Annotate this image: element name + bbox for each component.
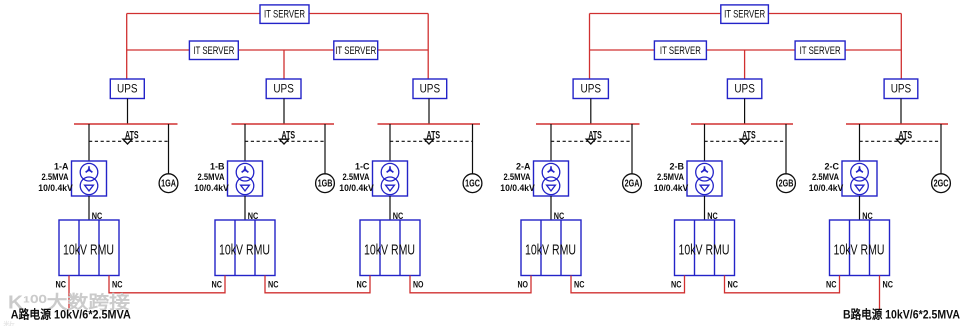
- svg-text:NC: NC: [212, 280, 223, 291]
- label: transformer 2-C rating: [809, 162, 844, 194]
- wire: transformer 1-B feeder drop: [244, 124, 246, 161]
- svg-text:NC: NC: [883, 280, 894, 291]
- RMU 6 (10kV ring main unit 2-C): [830, 220, 890, 276]
- wire: UPS 1-A drop to bus: [127, 99, 129, 125]
- svg-text:10kV RMU: 10kV RMU: [679, 242, 730, 259]
- wire: ring cable RMU 3 to RMU 4: [410, 276, 531, 293]
- bus 2-A (0.4kV busbar): [536, 123, 640, 125]
- svg-text:NC: NC: [728, 280, 739, 291]
- IT server (top, group B): [721, 5, 769, 24]
- wire: ring cable RMU 4 to RMU 5: [571, 276, 685, 293]
- RMU 5 (10kV ring main unit 2-B): [675, 220, 735, 276]
- wire: transformer 1-C to RMU: [389, 196, 391, 220]
- svg-text:10kV RMU: 10kV RMU: [219, 242, 270, 259]
- svg-text:10/0.4kV: 10/0.4kV: [38, 183, 73, 194]
- IT server (row 2 right, group A): [334, 41, 378, 60]
- label: transformer 1-B rating: [194, 162, 229, 194]
- wire: transformer 1-A to RMU: [88, 196, 90, 220]
- wire: UPS 1-B drop to bus: [283, 99, 285, 125]
- svg-text:1-A: 1-A: [54, 162, 69, 173]
- watermark: [3, 292, 130, 326]
- svg-text:UPS: UPS: [420, 84, 441, 96]
- bus 1-A (0.4kV busbar): [74, 123, 178, 125]
- generator 1GC: [463, 174, 482, 193]
- wire: UPS 1-C drop to bus: [428, 99, 430, 125]
- wire: transformer 1-B to RMU: [244, 196, 246, 220]
- RMU 1 (10kV ring main unit 1-A): [59, 220, 119, 276]
- IT server (top, group A): [260, 5, 309, 24]
- generator 2GB: [777, 174, 796, 193]
- svg-text:B路电源 10kV/6*2.5MVA: B路电源 10kV/6*2.5MVA: [843, 307, 960, 322]
- svg-text:IT SERVER: IT SERVER: [335, 45, 376, 57]
- IT server (row 2 left, group B): [654, 41, 706, 60]
- wire: transformer 2-A to RMU: [550, 196, 552, 220]
- transformer 1-A 2.5MVA 10/0.4kV: [72, 161, 107, 196]
- bus 1-B (0.4kV busbar): [232, 123, 335, 125]
- svg-text:NC: NC: [357, 280, 368, 291]
- transformer 2-B 2.5MVA 10/0.4kV: [687, 161, 722, 196]
- svg-text:2-C: 2-C: [825, 162, 840, 173]
- ATS 2-B (dashed transfer link): [705, 129, 787, 144]
- svg-text:NO: NO: [413, 280, 424, 291]
- svg-text:2.5MVA: 2.5MVA: [42, 172, 69, 183]
- svg-text:2GB: 2GB: [779, 178, 794, 190]
- wire: group B middle vertical to UPS: [744, 50, 746, 79]
- generator 1GA: [159, 174, 178, 193]
- label: transformer 2-B rating: [654, 162, 689, 194]
- svg-text:10kV RMU: 10kV RMU: [525, 242, 576, 259]
- wire: ring cable RMU 2 to RMU 3: [265, 276, 370, 293]
- svg-text:10kV RMU: 10kV RMU: [364, 242, 415, 259]
- transformer 1-C 2.5MVA 10/0.4kV: [373, 161, 408, 196]
- svg-text:2.5MVA: 2.5MVA: [657, 172, 684, 183]
- wire: group B right vertical to UPS: [900, 14, 902, 80]
- svg-text:NC: NC: [112, 280, 123, 291]
- svg-text:UPS: UPS: [734, 84, 755, 96]
- svg-text:2-B: 2-B: [670, 162, 685, 173]
- ATS 1-B (dashed transfer link): [245, 129, 325, 144]
- wire: incoming feed A to RMU 1: [68, 276, 70, 311]
- wire: transformer 1-A feeder drop: [88, 124, 90, 161]
- wire: transformer 2-B feeder drop: [704, 124, 706, 161]
- svg-text:IT SERVER: IT SERVER: [264, 9, 305, 21]
- wire: UPS 2-B drop to bus: [744, 99, 746, 125]
- svg-text:NC: NC: [826, 280, 837, 291]
- wire: generator 1GC drop: [472, 124, 474, 174]
- wire: transformer 2-B to RMU: [704, 196, 706, 220]
- svg-text:10/0.4kV: 10/0.4kV: [194, 183, 229, 194]
- svg-text:2.5MVA: 2.5MVA: [343, 172, 370, 183]
- ATS 2-A (dashed transfer link): [551, 129, 632, 144]
- wire: ring cable RMU 1 to RMU 2: [109, 276, 225, 293]
- svg-text:IT SERVER: IT SERVER: [193, 45, 234, 57]
- svg-text:1GC: 1GC: [465, 178, 480, 190]
- svg-text:NC: NC: [56, 280, 67, 291]
- label: transformer 1-A rating: [38, 162, 73, 194]
- svg-text:UPS: UPS: [117, 84, 138, 96]
- svg-text:1-B: 1-B: [210, 162, 225, 173]
- RMU 3 (10kV ring main unit 1-C): [360, 220, 420, 276]
- UPS B2: [727, 79, 761, 99]
- wire: transformer 2-A feeder drop: [550, 124, 552, 161]
- wire: generator 1GB drop: [324, 124, 326, 174]
- generator 2GC: [932, 174, 951, 193]
- wire: group B top server ring, upper horizontal: [590, 13, 902, 15]
- svg-text:10kV RMU: 10kV RMU: [834, 242, 885, 259]
- wire: transformer 1-C feeder drop: [389, 124, 391, 161]
- svg-text:IT SERVER: IT SERVER: [800, 45, 841, 57]
- svg-text:1-C: 1-C: [355, 162, 370, 173]
- wire: group B left vertical to UPS: [589, 14, 591, 80]
- svg-text:10kV RMU: 10kV RMU: [63, 242, 114, 259]
- svg-text:IT SERVER: IT SERVER: [724, 9, 765, 21]
- RMU 2 (10kV ring main unit 1-B): [215, 220, 275, 276]
- svg-text:A路电源 10kV/6*2.5MVA: A路电源 10kV/6*2.5MVA: [11, 307, 131, 322]
- wire: group A server row horizontal: [127, 49, 429, 51]
- svg-text:UPS: UPS: [273, 84, 294, 96]
- transformer 1-B 2.5MVA 10/0.4kV: [228, 161, 263, 196]
- wire: incoming feed B to RMU 6: [879, 276, 881, 310]
- generator 1GB: [316, 174, 335, 193]
- svg-text:2GC: 2GC: [934, 178, 949, 190]
- svg-text:NC: NC: [574, 280, 585, 291]
- svg-text:UPS: UPS: [581, 84, 602, 96]
- ATS 1-A (dashed transfer link): [89, 129, 169, 144]
- RMU 4 (10kV ring main unit 2-A): [521, 220, 581, 276]
- ATS 1-C (dashed transfer link): [390, 129, 473, 144]
- UPS A1: [110, 79, 144, 99]
- svg-text:NO: NO: [518, 280, 529, 291]
- svg-text:2.5MVA: 2.5MVA: [812, 172, 839, 183]
- transformer 2-C 2.5MVA 10/0.4kV: [842, 161, 877, 196]
- UPS B1: [573, 79, 608, 99]
- svg-text:1GA: 1GA: [161, 178, 176, 190]
- svg-text:1GB: 1GB: [318, 178, 333, 190]
- IT server (row 2 right, group B): [795, 41, 845, 60]
- label: transformer 2-A rating: [500, 162, 535, 194]
- svg-text:UPS: UPS: [891, 84, 912, 96]
- IT server (row 2 left, group A): [189, 41, 238, 60]
- transformer 2-A 2.5MVA 10/0.4kV: [534, 161, 569, 196]
- wire: ring cable RMU 5 to RMU 6: [725, 276, 840, 293]
- svg-text:10/0.4kV: 10/0.4kV: [654, 183, 689, 194]
- svg-text:10/0.4kV: 10/0.4kV: [809, 183, 844, 194]
- wire: group A left vertical to UPS: [126, 14, 128, 80]
- UPS A2: [266, 79, 301, 99]
- wire: UPS 2-C drop to bus: [900, 99, 902, 125]
- svg-text:2-A: 2-A: [516, 162, 531, 173]
- svg-text:10/0.4kV: 10/0.4kV: [500, 183, 535, 194]
- bus 2-C (0.4kV busbar): [846, 123, 948, 125]
- ATS 2-C (dashed transfer link): [860, 129, 942, 144]
- wire: generator 2GA drop: [631, 124, 633, 174]
- svg-text:2.5MVA: 2.5MVA: [504, 172, 531, 183]
- wire: generator 2GC drop: [940, 124, 942, 174]
- wire: generator 1GA drop: [168, 124, 170, 174]
- wire: transformer 2-C to RMU: [859, 196, 861, 220]
- svg-text:NC: NC: [671, 280, 682, 291]
- svg-text:10/0.4kV: 10/0.4kV: [339, 183, 374, 194]
- wire: group B server row horizontal: [590, 49, 902, 51]
- svg-text:NC: NC: [268, 280, 279, 291]
- wire: generator 2GB drop: [785, 124, 787, 174]
- bus 2-B (0.4kV busbar): [691, 123, 793, 125]
- wire: group A top server ring, upper horizontal: [127, 13, 429, 15]
- wire: group A right vertical to UPS: [427, 14, 429, 80]
- wire: UPS 2-A drop to bus: [590, 99, 592, 125]
- generator 2GA: [623, 174, 642, 193]
- UPS B3: [884, 79, 918, 99]
- svg-text:2GA: 2GA: [625, 178, 640, 190]
- UPS A3: [413, 79, 447, 99]
- label: transformer 1-C rating: [339, 162, 374, 194]
- wire: transformer 2-C feeder drop: [859, 124, 861, 161]
- wire: group A middle vertical to UPS: [283, 50, 285, 79]
- svg-text:2.5MVA: 2.5MVA: [198, 172, 225, 183]
- svg-text:IT SERVER: IT SERVER: [660, 45, 701, 57]
- bus 1-C (0.4kV busbar): [378, 123, 481, 125]
